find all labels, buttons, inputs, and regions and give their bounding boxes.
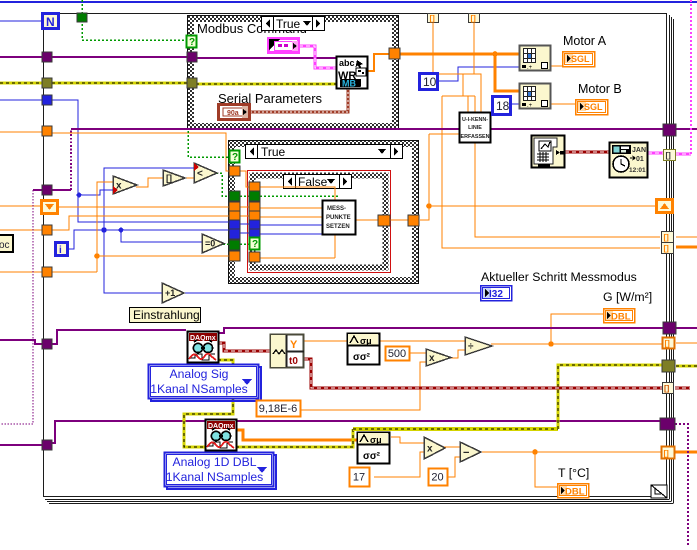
subtract function	[460, 442, 481, 462]
svg-text:σσ²: σσ²	[353, 352, 371, 363]
modbus write VI	[337, 57, 368, 89]
svg-text:Einstrahlung: Einstrahlung	[133, 308, 200, 322]
wire pink modbus cmd to WR	[299, 46, 336, 68]
tunnel orange false c207	[249, 202, 260, 212]
shift register right	[657, 200, 673, 213]
svg-text:σμ: σμ	[360, 336, 372, 346]
wire purple long row under modbus	[71, 128, 663, 130]
svg-text:12:01: 12:01	[629, 167, 646, 174]
svg-text:[]: []	[664, 244, 670, 253]
tunnel green true c196	[229, 191, 240, 201]
tunnel orange left c272	[42, 267, 52, 277]
wire orange array exits	[676, 236, 697, 238]
tunnel green top border	[77, 13, 87, 22]
wire blue inner case inputs	[240, 223, 249, 225]
svg-text:10: 10	[423, 75, 437, 89]
svg-text:T [°C]: T [°C]	[558, 466, 589, 480]
svg-text:SETZEN: SETZEN	[326, 224, 350, 230]
svg-text:Y: Y	[290, 339, 298, 351]
increment function	[162, 283, 184, 303]
case selector True	[246, 145, 403, 160]
equal-zero function	[202, 234, 224, 253]
wire orange 17 to multiply2	[374, 452, 424, 477]
loop count terminal N	[43, 14, 59, 30]
wire orange multiply to divide	[450, 350, 465, 358]
wire olive task to tunnel	[230, 429, 353, 447]
wire purple outside rows	[0, 340, 42, 344]
constant 17	[350, 468, 370, 487]
wire orange index bus top	[432, 22, 434, 73]
wire brown serial to WR	[250, 88, 348, 112]
svg-text:DAQmx: DAQmx	[190, 335, 216, 342]
shift register left	[42, 201, 58, 214]
tunnel olive right c366	[662, 360, 675, 372]
svg-text:U-I-KENN-: U-I-KENN-	[462, 117, 488, 123]
VISA serial constant	[219, 105, 250, 120]
wire orange multiply2 to subtract	[443, 446, 460, 448]
svg-text:Motor B: Motor B	[578, 82, 622, 96]
wire blue iteration net	[67, 230, 232, 249]
tunnel purple right c424	[660, 418, 675, 430]
svg-text:?: ?	[189, 37, 195, 48]
svg-text:+1: +1	[165, 288, 175, 298]
svg-text:[]: []	[430, 14, 436, 23]
wire blue to N terminal	[0, 20, 42, 22]
svg-text:JAN: JAN	[632, 147, 646, 154]
tunnel orange false c216	[249, 211, 260, 221]
wire blue const 10 to index	[438, 67, 519, 81]
wire pink right edge vertical	[690, 0, 692, 154]
svg-text:20: 20	[431, 471, 443, 483]
label Einstrahlung	[130, 308, 201, 323]
wire orange left to True case	[52, 133, 229, 171]
junction orange motor split	[492, 51, 498, 57]
statistics VI 2	[357, 433, 390, 464]
junction blue node	[77, 193, 82, 198]
wire orange 20 to subtract	[447, 457, 460, 477]
wire purple outside vertical	[0, 190, 33, 424]
wire blue +1 to I32	[182, 292, 480, 294]
coercion dot multiply	[113, 186, 118, 194]
tunnel purple modbus c57	[187, 52, 197, 62]
tunnel index right c237	[662, 232, 674, 243]
tunnel purple right c129	[663, 124, 676, 136]
tunnel orange true c257	[229, 251, 240, 261]
svg-text:I32: I32	[489, 289, 503, 300]
wire orange index out	[183, 177, 194, 179]
index array Motor A	[520, 46, 551, 72]
tunnel orange false c257	[249, 252, 260, 262]
svg-text:abc: abc	[339, 58, 355, 68]
DAQmx task constant Analog 1D DBL	[165, 453, 277, 490]
junction blue node i2	[119, 228, 124, 233]
wire orange mess out	[356, 219, 378, 221]
case structure Modbus Command	[187, 15, 399, 130]
tunnel purple left c57	[42, 52, 52, 62]
wire dynamic-data daqmx1 to convert	[218, 343, 270, 351]
wire orange subtract out to T and tunnel	[480, 451, 661, 453]
case structure True (outer)	[228, 140, 419, 284]
tunnel olive modbus c83	[187, 78, 197, 88]
svg-text:Analog Sig: Analog Sig	[170, 367, 229, 381]
svg-text:[]: []	[166, 173, 172, 183]
junction orange sr feed	[426, 203, 432, 209]
wire orange 9.18E-6 to multiply	[300, 362, 426, 410]
subVI U-I-KENNLINIE ERFASSEN	[460, 113, 491, 143]
indicator DBL T	[558, 484, 589, 498]
svg-text:t0: t0	[289, 356, 298, 367]
selector terminal modbus case	[187, 36, 197, 49]
svg-text:.+: .+	[527, 103, 533, 109]
wire green to true selector	[188, 131, 230, 157]
svg-text:90a: 90a	[227, 110, 239, 117]
dog-ear corner	[651, 485, 667, 498]
tunnel orange true out c220	[408, 215, 419, 226]
wire olive channel row top	[0, 82, 43, 85]
wire orange Y to stats	[304, 340, 347, 342]
indicator DBL G	[604, 309, 635, 323]
constant 10	[420, 74, 438, 90]
tunnel blue false c234	[249, 229, 260, 239]
svg-text:Motor A: Motor A	[563, 34, 607, 48]
wire orange to SGL B	[551, 103, 576, 105]
svg-text:=0: =0	[205, 239, 215, 249]
DAQmx task constant Analog Sig	[149, 365, 262, 402]
wire dynamic-data file to clock	[565, 151, 609, 154]
DAQmx read VI 1	[188, 332, 219, 363]
convert from dynamic data	[271, 335, 305, 368]
svg-text:True: True	[276, 17, 301, 31]
tunnel index top 1	[428, 14, 439, 24]
tunnel blue false c225	[249, 220, 260, 230]
wire orange inner false net	[260, 187, 335, 201]
tunnel purple left c190	[42, 185, 52, 195]
svg-text:[]: []	[664, 449, 670, 458]
junction blue node i1	[101, 227, 107, 233]
tunnel orange false out c220	[378, 215, 390, 226]
svg-text:DAQmx: DAQmx	[208, 423, 234, 430]
junction orange mult net	[94, 253, 100, 259]
wire dynamic-data t0 out	[304, 359, 663, 388]
wire green boolean top to modbus selector	[82, 0, 187, 40]
wire orange stats to divide	[379, 340, 465, 342]
wire green less-than out	[216, 173, 229, 196]
tunnel orange left c131	[42, 126, 52, 136]
tunnel orange left c230	[42, 225, 52, 235]
wire purple left riser	[52, 189, 71, 191]
wire orange multiply out	[136, 178, 163, 187]
constant 500	[386, 347, 410, 361]
iteration terminal i	[56, 243, 68, 257]
tunnel purple left c445	[42, 440, 52, 450]
indicator SGL Motor B	[576, 100, 608, 115]
tunnel olive left c83	[42, 78, 52, 88]
constant 18	[493, 97, 511, 115]
wire orange divide out to G and tunnel	[491, 343, 663, 345]
svg-text:MESS-: MESS-	[327, 206, 346, 212]
tunnel purple left c344	[42, 339, 52, 349]
wire pink clock string out	[648, 152, 663, 155]
svg-text:[]: []	[664, 384, 670, 393]
wire orange left row c131	[0, 131, 42, 133]
wire orange left rows	[0, 205, 41, 207]
svg-text:ERFASSEN: ERFASSEN	[460, 134, 489, 140]
tunnel orange true c216	[229, 211, 240, 221]
wire orange stats2 to multiply2	[391, 437, 424, 443]
svg-text:<: <	[197, 169, 203, 180]
constant 20	[429, 469, 448, 486]
junction orange T split	[532, 449, 538, 455]
wire orange case link	[240, 171, 249, 187]
svg-text:Analog 1D DBL: Analog 1D DBL	[172, 455, 256, 469]
svg-text:MB: MB	[342, 79, 356, 89]
svg-text:18: 18	[496, 99, 510, 113]
coercion dot less-than	[194, 163, 199, 171]
tunnel purple right c328	[663, 322, 676, 334]
selector terminal true case	[230, 151, 240, 164]
subVI MESS-PUNKTE SETZEN	[323, 201, 356, 235]
wire orange to SGL A	[551, 65, 566, 67]
label oc (clipped)	[0, 235, 13, 252]
wire green inner case boolean	[240, 195, 249, 197]
tunnel blue true c234	[229, 229, 240, 239]
wire purple visa top row	[0, 56, 187, 58]
svg-text:True: True	[261, 145, 286, 159]
svg-text:[]: []	[471, 14, 477, 23]
case selector False	[284, 175, 352, 190]
wire green equal-zero out	[223, 243, 229, 245]
case selector True (Modbus)	[262, 17, 325, 32]
modbus command cluster constant	[269, 39, 299, 53]
wire blue const 18 to index	[511, 103, 519, 105]
wire orange 500 to multiply	[409, 352, 426, 354]
index array Motor B	[520, 84, 551, 110]
tunnel index top 2	[469, 14, 480, 24]
case structure False (inner)	[247, 170, 391, 273]
svg-text:500: 500	[388, 348, 406, 360]
tunnel index right pink c155	[664, 150, 676, 161]
constant 9,18E-6	[257, 401, 301, 417]
svg-text:LINIE: LINIE	[468, 125, 482, 131]
svg-text:?: ?	[252, 239, 258, 250]
wire purple daq task row1	[52, 330, 186, 344]
svg-text:DBL: DBL	[565, 487, 585, 498]
format date-time string VI	[610, 143, 648, 178]
index array function	[163, 170, 185, 186]
wire orange UI bottom out	[475, 143, 660, 237]
selector terminal false case	[250, 238, 260, 251]
svg-text:÷: ÷	[468, 342, 474, 353]
svg-text:Aktueller Schritt Messmodus: Aktueller Schritt Messmodus	[481, 270, 637, 284]
tunnel index right c452	[662, 447, 675, 459]
svg-text:N: N	[46, 15, 55, 29]
indicator SGL Motor A	[563, 52, 595, 67]
express VI write measurement file	[532, 136, 565, 168]
indicator I32	[481, 286, 512, 301]
DAQmx read VI 2	[206, 420, 237, 451]
tunnel green false c196	[249, 191, 260, 201]
svg-text:[]: []	[664, 233, 670, 242]
svg-text:.+: .+	[527, 65, 533, 71]
wire orange daqmx2 array out	[237, 430, 357, 440]
statistics VI 1	[347, 334, 380, 365]
svg-text:[]: []	[666, 151, 672, 160]
svg-text:01: 01	[636, 156, 644, 163]
wire orange to shift register	[429, 205, 657, 207]
svg-text:SGL: SGL	[571, 54, 590, 64]
tunnel blue left c100	[42, 95, 52, 105]
svg-text:G [W/m²]: G [W/m²]	[603, 290, 652, 304]
tunnel blue true c225	[229, 220, 240, 230]
less-than function	[194, 163, 217, 183]
svg-text:i: i	[59, 245, 62, 256]
svg-text:[]: []	[665, 339, 671, 348]
tunnel orange true c171	[229, 166, 240, 176]
wire purple daq task row2	[52, 421, 660, 443]
multiply function 3 (bottom chain 2)	[424, 437, 445, 459]
wire orange WR to tunnel	[367, 54, 389, 71]
svg-text:x: x	[429, 353, 435, 364]
divide function	[465, 337, 492, 355]
wire blue top run	[0, 1, 697, 3]
tunnel index right c248	[662, 243, 674, 254]
svg-text:17: 17	[353, 471, 365, 483]
junction orange G split	[548, 341, 554, 347]
svg-text:SGL: SGL	[584, 102, 603, 112]
tunnel orange modbus out c54	[389, 48, 400, 59]
svg-text:?: ?	[232, 152, 238, 163]
svg-text:oc: oc	[0, 240, 10, 251]
svg-text:σμ: σμ	[370, 435, 382, 445]
svg-text:−: −	[463, 447, 469, 459]
tunnel index right c343	[663, 338, 675, 349]
svg-text:9,18E-6: 9,18E-6	[259, 403, 298, 415]
wire orange UI left input	[429, 133, 459, 135]
svg-text:σσ²: σσ²	[363, 451, 381, 462]
svg-text:DBL: DBL	[611, 312, 631, 323]
svg-text:1Kanal NSamples: 1Kanal NSamples	[166, 470, 264, 484]
multiply function 2 (bottom chain 1)	[426, 349, 451, 366]
svg-text:1Kanal NSamples: 1Kanal NSamples	[150, 382, 248, 396]
tunnel green true c245	[229, 240, 240, 250]
wire blue loop count net	[0, 99, 43, 101]
svg-text:PUNKTE: PUNKTE	[326, 215, 351, 221]
multiply function	[113, 176, 137, 194]
tunnel orange false c187	[249, 182, 260, 192]
wire orange modbus out thick	[399, 53, 519, 56]
wire olive task name net	[218, 360, 233, 364]
tunnel orange true c207	[229, 202, 240, 212]
svg-text:x: x	[427, 444, 433, 455]
tunnel index right c388	[663, 383, 674, 394]
